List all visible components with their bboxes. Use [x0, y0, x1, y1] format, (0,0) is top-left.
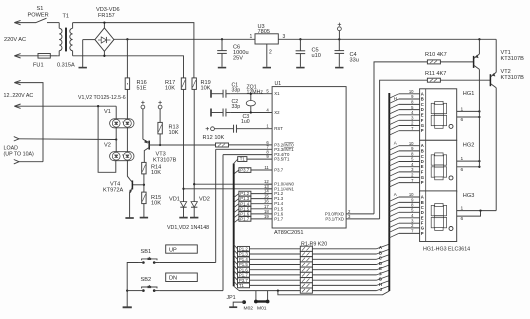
node 12..220V AC terminal 1 [14, 80, 20, 82]
wire T1 label to bus [234, 159, 238, 163]
svg-text:0.315A: 0.315A [57, 63, 75, 69]
HG3 pin 7 segment P [399, 232, 420, 234]
pin 17 [251, 208, 272, 210]
wire V1 to V2 right chain [126, 127, 128, 152]
svg-text:VD2: VD2 [199, 197, 210, 203]
svg-text:KT972A: KT972A [103, 188, 123, 194]
svg-text:M01: M01 [257, 306, 267, 312]
node +5V test point [338, 23, 341, 25]
svg-text:M02: M02 [244, 306, 254, 312]
svg-text:F: F [421, 169, 424, 174]
svg-text:10: 10 [409, 192, 414, 197]
pin 5 [230, 93, 272, 95]
svg-text:G: G [421, 225, 424, 230]
wire to resistor [250, 258, 301, 260]
wire bridge bottom vertex to AC bottom rail [103, 51, 105, 56]
net label P1.3 bottom [234, 250, 238, 254]
wire to segment bus [312, 284, 376, 286]
svg-text:P3.7: P3.7 [274, 168, 283, 173]
ground at bridge negative [82, 40, 84, 68]
svg-text:VD1,VD2 1N4148: VD1,VD2 1N4148 [167, 225, 209, 231]
HG2 pin 8 segment C [399, 155, 420, 157]
resistor R17 [181, 78, 185, 90]
bus entry [234, 199, 239, 203]
net label P1.4 bottom [234, 255, 238, 259]
HG1 pin 3 segment F [399, 119, 420, 121]
wire load terminal 2 [19, 161, 43, 163]
ground at U3 [266, 66, 268, 67]
svg-text:FU1: FU1 [33, 63, 44, 69]
HG3 pin 10 segment A [399, 196, 420, 198]
wire to resistor [250, 284, 301, 286]
wire to segment bus [312, 279, 376, 281]
wire to segment bus [312, 269, 376, 271]
svg-text:SB2: SB2 [141, 277, 152, 283]
pin 18 [251, 213, 272, 215]
svg-text:10K: 10K [151, 201, 161, 207]
svg-text:(UP TO 10A): (UP TO 10A) [4, 151, 35, 157]
capacitor C4 [338, 39, 340, 50]
svg-text:F: F [379, 271, 382, 276]
wire to resistor [250, 253, 301, 255]
pin 6 [229, 144, 272, 146]
wire test point to R13 [159, 109, 161, 123]
ground at C5 [299, 66, 301, 67]
wire HG2 pin1 [457, 160, 480, 162]
resistor R6 [300, 272, 312, 277]
svg-text:P: P [421, 128, 424, 133]
switch S1 [36, 18, 47, 22]
diode VD2 [191, 202, 197, 208]
svg-text:V2: V2 [104, 143, 111, 149]
pin 2 of U3 to ground [266, 44, 268, 66]
svg-text:B: B [421, 148, 424, 153]
label box DN [166, 273, 198, 282]
wire rectified DC rail bridge to U3 input [114, 38, 255, 40]
svg-text:HG1-HG3 ELC3614: HG1-HG3 ELC3614 [423, 246, 470, 252]
svg-text:220V AC: 220V AC [4, 37, 26, 43]
svg-text:10K: 10K [169, 130, 179, 136]
wire 220V top to switch [14, 22, 36, 24]
svg-text:V1,V2 TO125-12.5-6: V1,V2 TO125-12.5-6 [78, 95, 126, 101]
svg-text:P3.7: P3.7 [240, 168, 249, 173]
wire to resistor [250, 248, 301, 250]
net label P1.6 box [239, 212, 251, 217]
pin 19 [251, 218, 272, 220]
wire to segment bus [312, 290, 376, 292]
node 12..220V AC terminal 2 [14, 104, 20, 106]
transistor VT4 [131, 181, 133, 190]
svg-text:P1.7: P1.7 [240, 217, 249, 222]
resistor R16 [125, 78, 129, 90]
ground at C6 [221, 66, 223, 67]
svg-text:X1: X1 [274, 91, 280, 96]
net label P1.3 box [239, 196, 251, 201]
wire AC top rail from transformer to R19 column [73, 23, 194, 78]
resistor R14 [142, 162, 146, 174]
svg-text:T1: T1 [63, 14, 70, 20]
transistor VT2 [489, 74, 491, 86]
svg-text:10K: 10K [165, 86, 175, 92]
wire R13 to VT3 base node [159, 134, 161, 145]
svg-text:POWER: POWER [28, 13, 49, 19]
svg-text:P3.5/T1: P3.5/T1 [274, 157, 290, 162]
svg-text:33p: 33p [232, 104, 241, 110]
HG3 pin 5 segment D [399, 211, 420, 213]
HG2 pin 4 segment E [399, 166, 420, 168]
svg-text:DN: DN [169, 275, 177, 281]
svg-text:A: A [394, 192, 397, 197]
HG1 seven segment digit [435, 101, 443, 104]
wire +5V rail from U3 output to VT1 VT2 emitters [278, 38, 496, 40]
svg-text:P: P [421, 231, 424, 236]
svg-text:B: B [379, 250, 382, 255]
svg-text:P1.7: P1.7 [239, 273, 248, 278]
pin 8 [223, 154, 272, 156]
fuse FU1 [38, 54, 50, 59]
node VT3 +5V test point [141, 102, 144, 104]
HG2 seven segment digit [435, 153, 443, 156]
svg-text:25V: 25V [233, 56, 243, 62]
svg-text:VD1: VD1 [169, 197, 180, 203]
resistor R1 [300, 246, 312, 251]
HG1 pin 2 segment G [399, 125, 420, 127]
svg-text:1u0: 1u0 [241, 119, 250, 125]
display HG2 [420, 140, 457, 192]
wire load terminal to V1-V2 midpoint [19, 138, 116, 141]
resistor R9 [300, 288, 312, 293]
svg-text:KT3107B: KT3107B [501, 56, 525, 62]
net label P1.2 box [239, 191, 251, 196]
svg-text:1: 1 [250, 34, 253, 40]
resistor R2 [300, 251, 312, 256]
svg-text:JP1: JP1 [227, 295, 236, 301]
HG3 pin 4 segment E [399, 217, 420, 219]
diode VD1 [180, 202, 186, 208]
svg-text:SB1: SB1 [141, 249, 152, 255]
net label P1.7 bottom [234, 271, 238, 275]
node LOAD terminal 2 [14, 160, 19, 162]
transistor VT3 [148, 141, 150, 150]
svg-text:P1.3: P1.3 [239, 252, 248, 257]
svg-text:KT3107B: KT3107B [501, 75, 525, 81]
svg-text:HG3: HG3 [463, 193, 475, 199]
capacitor C6 [221, 39, 223, 50]
HG2 pin 9 segment B [399, 150, 420, 152]
svg-text:RST: RST [274, 126, 283, 131]
HG3 pin 9 segment B [399, 201, 420, 203]
net label P1.7 box [239, 217, 251, 222]
node R13 +5V test point [158, 102, 161, 104]
pin 3 P3.1/TXD [346, 218, 380, 220]
svg-text:HG1: HG1 [463, 91, 475, 97]
wire AIN1 to MCU pin 13 [184, 188, 273, 190]
net label P1.6 bottom [234, 266, 238, 270]
svg-text:12..220V AC: 12..220V AC [4, 93, 34, 99]
svg-text:E: E [421, 112, 424, 117]
net label P1.5 box [239, 206, 251, 211]
label box UP [166, 245, 198, 253]
wire +DC to R16 [126, 39, 128, 78]
wire to resistor [250, 279, 301, 281]
wire HG1 pin6 to VT1 collector [457, 116, 480, 118]
pin 1 [238, 128, 272, 130]
HG3 pin 2 segment G [399, 227, 420, 229]
wire RXD to R10 [374, 62, 427, 214]
pin 7 [216, 148, 272, 150]
HG3 pin 8 segment C [399, 206, 420, 208]
resistor R7 [300, 278, 312, 283]
wire HG1 pin1 to VT1 collector [457, 110, 480, 112]
svg-text:51E: 51E [137, 86, 147, 92]
pin 4 [230, 112, 272, 114]
wire to segment bus [312, 248, 376, 250]
wire SB1 to P3.3 riser [160, 262, 216, 264]
ground at C4 [338, 66, 340, 67]
HG2 pin 2 segment G [399, 176, 420, 178]
wire terminal 2 to V1 anode [14, 105, 116, 107]
wire fuse to transformer primary [50, 55, 57, 57]
ground at JP1 [229, 306, 237, 308]
svg-text:R11 4K7: R11 4K7 [425, 71, 446, 77]
net label T1 box [238, 157, 247, 162]
ground at VT4 emitter [125, 217, 133, 219]
HG2 pin 10 segment A [399, 145, 420, 147]
svg-text:A: A [394, 141, 397, 146]
wire JP1 pad1 to ground [233, 302, 244, 307]
svg-text:X2: X2 [274, 110, 280, 115]
HG1 pin 7 segment P [399, 130, 420, 132]
net label T1 bottom [234, 281, 238, 285]
wire JP1 row [234, 286, 239, 290]
wire V1 left pins [115, 106, 117, 119]
wire below R9 to bus bottom [278, 291, 389, 295]
svg-text:HG2: HG2 [463, 143, 475, 149]
wire AC bottom rail from transformer to R17 column [73, 56, 184, 78]
svg-text:E: E [421, 215, 424, 220]
pin 16 [251, 203, 272, 205]
wire VT1 collector down displays [478, 69, 480, 166]
svg-text:A: A [421, 195, 424, 200]
svg-text:T1: T1 [239, 283, 245, 288]
net label P1.4 box [239, 201, 251, 206]
wire HG3 pin6 [457, 211, 481, 217]
net label P3.7 box [239, 168, 251, 173]
wire R14 to VT4 base node [143, 174, 145, 192]
svg-text:S1: S1 [37, 6, 44, 12]
net label P1.5 bottom [234, 260, 238, 264]
svg-text:33u: 33u [350, 58, 359, 64]
pin 13 [266, 188, 273, 190]
wire R16 to optocoupler V1 [126, 89, 128, 119]
wire to segment bus [312, 274, 376, 276]
HG1 pin 9 segment B [399, 98, 420, 100]
svg-text:19: 19 [264, 214, 269, 219]
net label P3.7 bottom [234, 276, 238, 280]
svg-text:B: B [421, 97, 424, 102]
svg-text:KT3107B: KT3107B [153, 158, 177, 164]
wire HG3 pin1 to VT2 collector [457, 210, 497, 212]
node 220V AC input top terminal [14, 20, 20, 22]
resistor R8 [300, 283, 312, 288]
resistor R3 [300, 257, 312, 262]
pin 11 [249, 169, 272, 171]
svg-text:AT89C2051: AT89C2051 [274, 230, 303, 236]
segment bus vertical [388, 93, 390, 291]
HG1 pin 8 segment C [399, 103, 420, 105]
wire VT2 collector down to HG3 [495, 88, 497, 211]
wire bridge minus output to ground [83, 39, 95, 41]
wire P3.4 to SB2 [222, 155, 224, 291]
svg-text:10K: 10K [151, 170, 161, 176]
resistor R19 [192, 78, 196, 90]
svg-text:11: 11 [264, 165, 269, 170]
capacitor C5 [299, 39, 301, 51]
svg-text:P: P [421, 180, 424, 185]
transistor VT1 [473, 56, 475, 68]
wire terminal 1 down to load terminal [14, 83, 43, 162]
wire V2 left pin down [115, 160, 117, 162]
HG2 pin 3 segment F [399, 171, 420, 173]
ground at buttons [123, 306, 132, 308]
wire to segment bus [312, 264, 376, 266]
display HG1 [420, 89, 457, 141]
wire +5V corner to VT2 emitter [495, 39, 497, 72]
wire R17 to VD1 and AIN1 [183, 89, 185, 201]
wire bridge top vertex to AC top rail [103, 23, 105, 28]
pin 9 [247, 158, 272, 160]
svg-text:2: 2 [269, 50, 272, 56]
svg-text:12MHz: 12MHz [247, 90, 264, 96]
HG1 pin 5 segment D [399, 109, 420, 111]
wire base node to VT4 [133, 184, 144, 186]
svg-text:V1: V1 [104, 109, 111, 115]
display HG3 [420, 191, 457, 242]
wire R15 to ground [143, 204, 145, 218]
svg-text:H: H [394, 96, 397, 101]
net bus MCU to bottom stack [233, 164, 235, 287]
net label P1.2 bottom [234, 245, 238, 249]
wire SB2 to P3.4 riser [160, 290, 223, 292]
wire AIN0 to MCU pin 12 [194, 183, 272, 185]
bus entry [234, 209, 239, 213]
wire P3.3 to SB1 [215, 149, 217, 262]
pin 2 P3.0/RXD [346, 213, 374, 215]
wire HG2 pin6 [457, 166, 480, 168]
wire to segment bus [312, 258, 376, 260]
HG2 pin 7 segment P [399, 182, 420, 184]
wire VT3 base to R12 [149, 144, 215, 146]
wire 220V bottom to fuse [14, 55, 38, 57]
wire TXD to R11 [380, 80, 428, 219]
HG2 pin 5 segment D [399, 161, 420, 163]
svg-text:33p: 33p [232, 88, 241, 94]
resistor R13 [158, 122, 162, 133]
resistor R4 [300, 262, 312, 267]
svg-text:R10 4K7: R10 4K7 [425, 52, 447, 58]
node 220V AC input bottom terminal [14, 54, 20, 56]
svg-text:FR157: FR157 [98, 13, 115, 19]
svg-text:UP: UP [169, 247, 177, 253]
wire to segment bus [312, 253, 376, 255]
wire V1 V2 mains loop [98, 106, 116, 172]
wire to resistor [250, 264, 301, 266]
wire to resistor [250, 269, 301, 271]
wire R19 to VD2 and AIN0 [193, 89, 195, 201]
HG3 pin 3 segment F [399, 222, 420, 224]
svg-text:T1: T1 [240, 157, 246, 162]
bus entry [234, 194, 239, 198]
resistor R5 [300, 267, 312, 272]
HG1 pin 10 segment A [399, 93, 420, 95]
pin 15 [251, 198, 272, 200]
svg-text:D: D [421, 210, 424, 215]
bus entry [234, 204, 239, 208]
bus entry [234, 219, 239, 223]
svg-text:6: 6 [461, 117, 464, 123]
pin 12 [266, 183, 273, 185]
svg-text:P3.1/TXD: P3.1/TXD [325, 217, 344, 222]
node LOAD terminal 1 [14, 137, 19, 139]
svg-text:P1.7: P1.7 [274, 216, 283, 221]
wire to resistor [250, 274, 301, 276]
wire SB1 SB2 common to ground [127, 263, 138, 308]
wire test point to VT3 emitter [142, 109, 144, 139]
resistor R15 [142, 192, 146, 204]
svg-text:6: 6 [461, 216, 464, 222]
HG1 pin 4 segment E [399, 114, 420, 116]
svg-text:u10: u10 [312, 53, 321, 59]
HG3 seven segment digit [435, 204, 443, 207]
pin 14 [251, 193, 272, 195]
bus entry [234, 214, 239, 218]
svg-text:R12 10K: R12 10K [203, 135, 225, 141]
wire V2 right pin to VT4 collector [127, 161, 130, 180]
svg-text:10K: 10K [201, 86, 211, 92]
svg-text:6: 6 [461, 167, 464, 173]
